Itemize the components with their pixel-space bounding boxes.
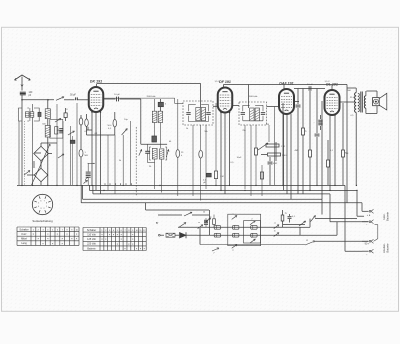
svg-text:1 M: 1 M — [220, 176, 224, 178]
svg-text:a: a — [198, 222, 199, 224]
svg-text:90 +: 90 + — [365, 242, 370, 245]
svg-text:Mittel: Mittel — [21, 238, 27, 241]
svg-text:1x: 1x — [210, 217, 212, 219]
svg-text:e: e — [251, 219, 252, 221]
svg-text:1M: 1M — [266, 124, 269, 126]
svg-text:6: 6 — [40, 200, 41, 202]
svg-text:7: 7 — [44, 200, 45, 202]
svg-text:1,5 V: 1,5 V — [214, 81, 220, 83]
svg-text:220 Volt: 220 Volt — [87, 243, 96, 246]
svg-text:10 µF: 10 µF — [114, 94, 120, 96]
svg-text:1,5 V: 1,5 V — [324, 81, 330, 83]
svg-text:110 Volt: 110 Volt — [87, 234, 96, 237]
svg-text:Sockelschaltung: Sockelschaltung — [32, 219, 53, 223]
svg-text:Batterie: Batterie — [386, 211, 390, 220]
svg-text:Batterie: Batterie — [386, 243, 390, 252]
svg-text:5: 5 — [38, 203, 39, 205]
svg-text:Lang: Lang — [21, 242, 27, 245]
svg-text:125 Volt: 125 Volt — [87, 238, 96, 241]
svg-text:8: 8 — [46, 203, 47, 205]
svg-text:DAF 191: DAF 191 — [279, 81, 293, 85]
svg-text:Heiz-: Heiz- — [382, 213, 386, 219]
svg-text:e: e — [251, 237, 252, 239]
svg-text:10 nF: 10 nF — [307, 84, 313, 86]
svg-text:DF 191: DF 191 — [219, 80, 231, 84]
svg-text:3: 3 — [40, 208, 41, 210]
svg-text:MΩ: MΩ — [85, 155, 89, 157]
svg-text:10nF: 10nF — [237, 157, 242, 159]
svg-text:2040 kHz: 2040 kHz — [147, 96, 156, 98]
svg-text:Anoden-: Anoden- — [382, 243, 386, 253]
svg-text:DK 191: DK 191 — [90, 79, 102, 83]
svg-text:Schalter: Schalter — [19, 228, 28, 231]
svg-text:Batterie: Batterie — [87, 247, 96, 250]
svg-text:1: 1 — [46, 206, 47, 208]
svg-text:2: 2 — [44, 208, 45, 210]
svg-text:Kurz: Kurz — [22, 233, 28, 236]
svg-text:Schalter: Schalter — [87, 229, 96, 232]
svg-text:4M: 4M — [295, 150, 298, 152]
svg-text:50: 50 — [203, 212, 205, 214]
svg-text:a: a — [274, 223, 275, 225]
svg-text:50 pF: 50 pF — [70, 94, 76, 96]
svg-text:4: 4 — [38, 206, 39, 208]
svg-text:2040 kHz: 2040 kHz — [249, 96, 258, 98]
